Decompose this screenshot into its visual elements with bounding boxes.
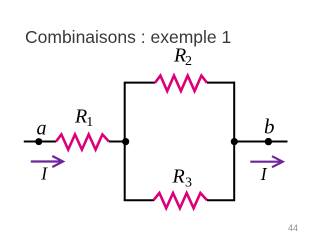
wire: right vertical branch bbox=[233, 82, 235, 201]
node b (dot) bbox=[265, 138, 272, 145]
svg-text:b: b bbox=[264, 114, 275, 138]
svg-text:1: 1 bbox=[86, 115, 93, 130]
wire: left lead from a to R1 bbox=[24, 141, 56, 143]
resistor R2 bbox=[155, 76, 207, 91]
title bbox=[25, 27, 231, 48]
junction left bbox=[122, 138, 129, 145]
wire: left vertical branch bbox=[124, 83, 126, 201]
svg-text:R: R bbox=[74, 106, 87, 128]
current arrow I (right) bbox=[250, 156, 282, 167]
svg-text:I: I bbox=[40, 163, 48, 183]
wire: bottom lead left of R3 bbox=[124, 199, 154, 201]
junction right bbox=[231, 138, 238, 145]
current arrow I (left) bbox=[31, 156, 63, 167]
svg-text:R: R bbox=[172, 166, 185, 188]
svg-text:2: 2 bbox=[185, 54, 192, 69]
wire: R1 to left junction bbox=[109, 141, 126, 143]
svg-text:a: a bbox=[37, 118, 47, 140]
node a (dot) bbox=[35, 138, 42, 145]
wire: right lead from junction to b bbox=[234, 141, 287, 143]
page number 44 bbox=[288, 223, 298, 233]
svg-text:I: I bbox=[260, 164, 268, 184]
wire: top lead left of R2 bbox=[124, 82, 155, 84]
wire: bottom lead right of R3 bbox=[207, 199, 235, 201]
resistor R3 bbox=[154, 193, 208, 208]
resistor R1 bbox=[56, 134, 109, 149]
svg-text:3: 3 bbox=[185, 176, 192, 191]
wire: top lead right of R2 bbox=[207, 82, 235, 84]
